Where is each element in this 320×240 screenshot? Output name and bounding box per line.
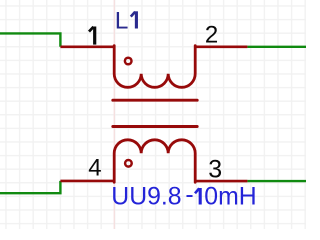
transformer L1 primary winding — [114, 46, 195, 88]
wire (top-right, green) — [247, 46, 306, 48]
svg-text:UU9.8: UU9.8 — [111, 184, 181, 211]
transformer L1 pin 2 lead — [195, 45, 247, 48]
transformer L1 primary polarity dot — [125, 58, 132, 65]
transformer L1 secondary polarity dot — [125, 160, 132, 167]
wire (bottom-right, green) — [247, 180, 306, 182]
svg-text:0mH: 0mH — [204, 184, 256, 211]
svg-text:4: 4 — [88, 155, 101, 182]
transformer L1 pin 1 lead — [60, 45, 114, 48]
svg-text:-: - — [185, 182, 193, 209]
transformer L1 core line 2 — [113, 125, 197, 128]
pin number 1 — [89, 27, 95, 45]
wire (bottom-left, green) — [0, 181, 60, 193]
transformer L1 secondary winding — [114, 140, 195, 182]
transformer L1 pin 3 lead — [195, 180, 247, 183]
svg-text:3: 3 — [208, 155, 222, 183]
transformer L1 core line 1 — [113, 99, 197, 102]
node anchor crosshair (faint) — [113, 0, 115, 229]
svg-text:2: 2 — [205, 22, 218, 49]
svg-text:L: L — [115, 8, 129, 35]
transformer L1 pin 4 lead — [60, 180, 114, 183]
wire (top-left, green) — [0, 33, 60, 46]
